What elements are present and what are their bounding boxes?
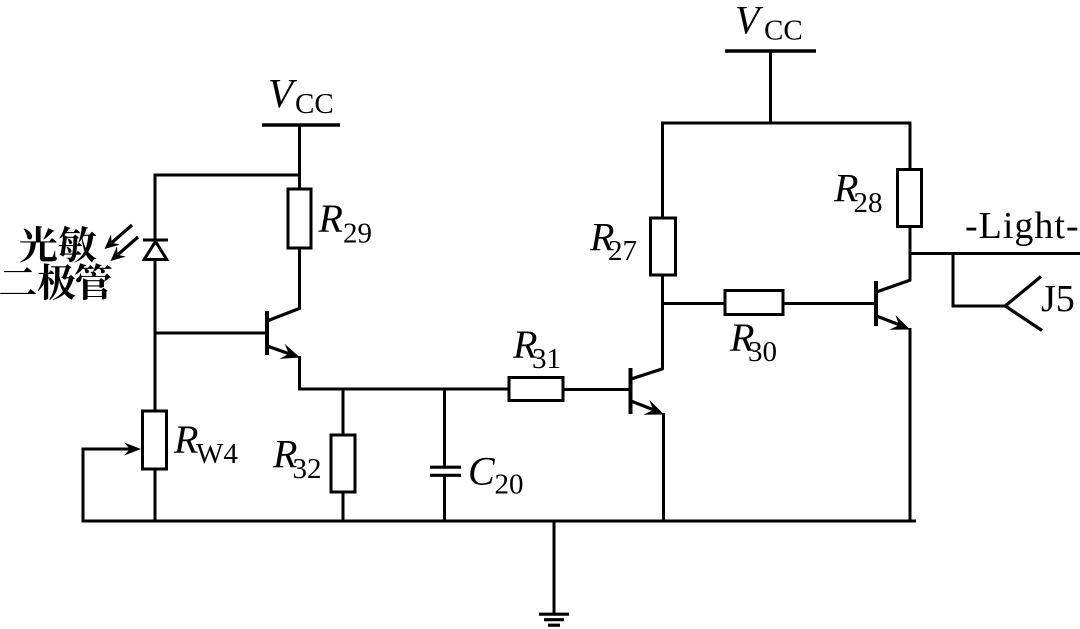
transistor Q2: base bar xyxy=(629,368,633,414)
svg-text:-Light-: -Light- xyxy=(965,205,1080,247)
transistor Q2: collector diagonal xyxy=(631,369,664,380)
wire: R28 bottom to light node xyxy=(909,226,912,255)
svg-text:20: 20 xyxy=(495,469,524,501)
connector J5: drop wire xyxy=(952,254,955,307)
transistor Q1: collector diagonal xyxy=(267,308,301,321)
Vcc bar (left) xyxy=(262,123,340,127)
resistor R27 xyxy=(651,218,676,275)
svg-text:28: 28 xyxy=(854,187,883,219)
wire: C20 bottom lead xyxy=(443,475,446,522)
connector J5: stub xyxy=(952,305,1006,308)
photodiode: light arrow 2 xyxy=(118,237,138,255)
svg-text:W4: W4 xyxy=(196,438,238,470)
photodiode: cathode bar xyxy=(143,239,168,242)
wire: Q1 base wire xyxy=(155,332,265,335)
photodiode: light arrow 1 xyxy=(112,225,132,243)
wire: mid rail emitter to R31 xyxy=(298,388,510,391)
svg-text:J5: J5 xyxy=(1041,278,1075,320)
label 光敏二极管 (photodiode caption) xyxy=(0,226,112,300)
wire: R31 to Q2 base xyxy=(563,388,629,391)
wire: Q3 emitter vertical xyxy=(909,328,912,523)
wire: R27/Q2-collector vertical xyxy=(661,122,664,370)
transistor Q3: collector diagonal xyxy=(877,280,911,292)
wire: photodiode/RW4 left vertical xyxy=(154,175,157,523)
connector J5: upper prong xyxy=(1005,277,1042,307)
resistor R32 xyxy=(331,435,355,492)
svg-text:V: V xyxy=(268,70,297,116)
svg-text:30: 30 xyxy=(748,336,777,368)
svg-text:CC: CC xyxy=(764,15,803,47)
svg-text:31: 31 xyxy=(532,343,561,375)
svg-text:29: 29 xyxy=(343,218,372,250)
wire: node to R30 xyxy=(661,302,726,305)
capacitor C20: bottom plate xyxy=(430,474,461,477)
wire: right Vcc stem xyxy=(769,51,772,125)
resistor R30 xyxy=(725,291,783,315)
wire: R32 branch vertical xyxy=(342,389,345,523)
potentiometer RW4: body xyxy=(143,411,167,469)
photodiode: triangle xyxy=(144,242,167,260)
wire: Q2 emitter vertical xyxy=(662,413,665,523)
Vcc bar (right) xyxy=(725,49,816,53)
wire: RW4 wiper left leg xyxy=(82,448,85,523)
ground xyxy=(539,521,569,625)
transistor Q2: emitter diagonal + arrow xyxy=(631,401,654,410)
capacitor C20: top plate xyxy=(430,466,461,469)
transistor Q3: emitter diagonal + arrow xyxy=(877,316,901,325)
wire: top-left horizontal from node to R29 branch xyxy=(154,174,302,177)
svg-text:27: 27 xyxy=(608,235,637,267)
connector J5: lower prong xyxy=(1005,306,1043,331)
svg-text:C: C xyxy=(468,449,496,494)
svg-text:32: 32 xyxy=(293,453,322,485)
svg-text:R: R xyxy=(318,196,343,241)
resistor R28 xyxy=(898,170,922,227)
wire: R29 branch vertical xyxy=(298,175,301,309)
wire: left Vcc stem xyxy=(298,125,301,177)
svg-text:V: V xyxy=(735,0,764,43)
wire: R30 to Q3 base xyxy=(783,302,875,305)
wire: R28 branch vertical top xyxy=(909,123,912,170)
wire: top-right Vcc rail xyxy=(661,122,912,125)
potentiometer RW4: wiper arrow xyxy=(83,448,130,451)
transistor Q1: emitter diagonal + arrow xyxy=(267,346,290,354)
resistor R29 xyxy=(288,189,311,248)
transistor Q1: base bar xyxy=(265,311,269,355)
svg-text:R: R xyxy=(173,417,198,462)
wire: C20 branch vertical xyxy=(443,389,446,466)
resistor R31 xyxy=(509,378,563,401)
transistor Q3: base bar xyxy=(874,281,878,326)
svg-text:CC: CC xyxy=(295,88,334,120)
wire: bottom ground rail xyxy=(82,520,917,523)
wire: Q3 collector vertical xyxy=(909,254,912,282)
wire: -Light- output wire xyxy=(909,252,1080,255)
wire: Q1 emitter drop xyxy=(298,356,301,391)
